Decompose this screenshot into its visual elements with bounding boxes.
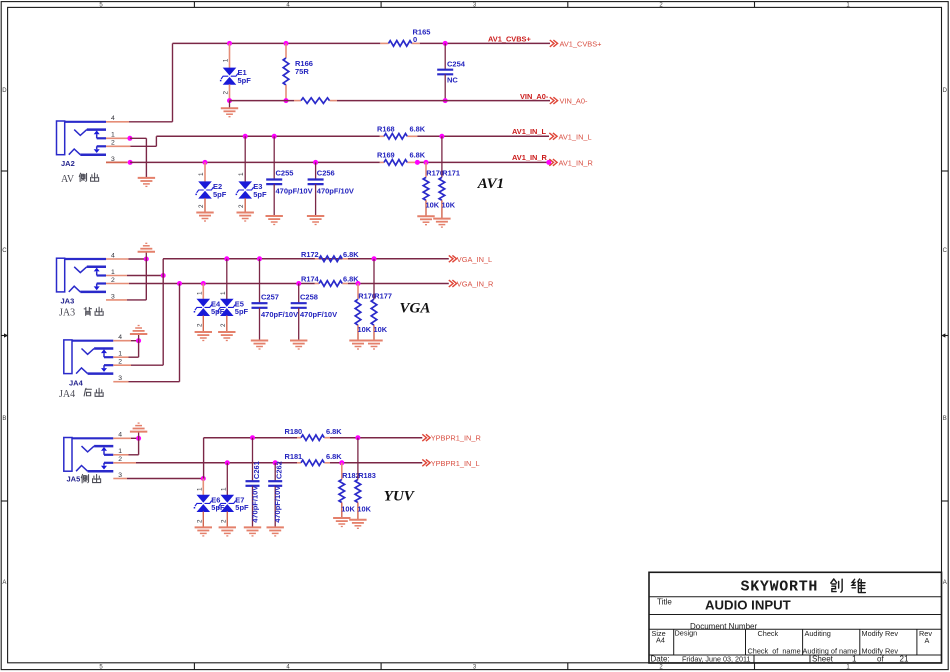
TVS diode E5 5pF: [224, 256, 229, 261]
svg-text:5pF: 5pF: [213, 190, 227, 199]
svg-text:YPBPR1_IN_R: YPBPR1_IN_R: [431, 434, 481, 443]
svg-text:6.8K: 6.8K: [410, 151, 426, 160]
svg-text:10K: 10K: [341, 504, 355, 513]
ground: [229, 101, 231, 108]
svg-text:R180: R180: [285, 427, 303, 436]
resistor R168 6.8K: [384, 134, 407, 140]
svg-text:1: 1: [220, 487, 227, 491]
svg-text:AUDIO INPUT: AUDIO INPUT: [705, 598, 791, 613]
svg-text:6.8K: 6.8K: [326, 427, 342, 436]
resistor (unlabeled): [301, 98, 330, 104]
resistor R176 10K: [356, 281, 361, 286]
svg-text:JA4: JA4: [69, 378, 84, 387]
resistor R169 6.8K: [384, 160, 407, 166]
svg-text:21: 21: [900, 655, 909, 664]
svg-text:2: 2: [196, 519, 203, 523]
svg-text:R172: R172: [301, 250, 319, 259]
svg-text:0: 0: [413, 35, 417, 44]
svg-text:D: D: [943, 88, 948, 94]
TVS diode E2 5pF: [203, 160, 208, 165]
svg-text:AV1_CVBS+: AV1_CVBS+: [488, 34, 531, 43]
svg-text:R171: R171: [442, 168, 460, 177]
svg-text:C257: C257: [261, 292, 279, 301]
port AV1_CVBS+: [550, 40, 558, 47]
svg-text:JA3: JA3: [61, 296, 75, 305]
svg-text:2: 2: [220, 519, 227, 523]
junction: [227, 98, 232, 103]
svg-text:10K: 10K: [426, 201, 440, 210]
ground: [196, 212, 213, 214]
resistor R177 10K: [372, 256, 377, 261]
svg-text:C: C: [943, 248, 948, 254]
svg-text:6.8K: 6.8K: [326, 452, 342, 461]
TVS diode E3 5pF: [243, 134, 248, 139]
port YPBPR1_IN_R: [422, 434, 430, 441]
ground: [349, 519, 366, 521]
ground (inverted): [130, 333, 147, 335]
junction: [284, 98, 289, 103]
svg-text:2: 2: [196, 323, 203, 327]
capacitor C254 NC: [444, 43, 446, 69]
svg-text:VIN_A0-: VIN_A0-: [560, 97, 588, 106]
svg-text:YPBPR1_IN_L: YPBPR1_IN_L: [431, 459, 480, 468]
svg-text:10K: 10K: [442, 201, 456, 210]
junction: [177, 281, 182, 286]
port YPBPR1_IN_L: [422, 459, 430, 466]
resistor R171 10K: [439, 134, 444, 139]
connector JA2: [57, 121, 107, 155]
svg-text:VGA_IN_R: VGA_IN_R: [457, 280, 494, 289]
svg-text:JA5: JA5: [67, 475, 81, 484]
ground: [244, 526, 261, 528]
capacitor C258 470pF/10V: [296, 281, 301, 286]
svg-text:10K: 10K: [374, 325, 388, 334]
junction: [443, 41, 448, 46]
ground: [219, 526, 236, 528]
svg-text:2: 2: [198, 204, 205, 208]
wire top rail AV1_CVBS+: [173, 42, 381, 44]
svg-text:D: D: [2, 88, 7, 94]
svg-text:Date:: Date:: [651, 655, 670, 664]
TVS diode E7 5pF: [225, 460, 230, 465]
svg-text:6.8K: 6.8K: [410, 125, 426, 134]
ground (inverted): [138, 251, 155, 253]
svg-text:C256: C256: [317, 169, 335, 178]
svg-text:1: 1: [852, 655, 857, 664]
svg-text:2: 2: [238, 204, 245, 208]
ground: [333, 517, 350, 519]
ground: [290, 340, 307, 342]
svg-text:R169: R169: [377, 151, 395, 160]
svg-text:R174: R174: [301, 275, 320, 284]
ground: [365, 340, 382, 342]
ground (inverted): [130, 431, 147, 433]
svg-text:2: 2: [223, 91, 230, 95]
svg-text:1: 1: [196, 291, 203, 295]
port VGA_IN_R: [449, 280, 457, 287]
svg-text:5pF: 5pF: [235, 307, 249, 316]
svg-text:C254: C254: [447, 60, 466, 69]
ground: [195, 331, 212, 333]
port VIN_A0-: [550, 97, 558, 104]
svg-text:470pF/10V: 470pF/10V: [317, 187, 354, 196]
junction: [284, 41, 289, 46]
svg-text:B: B: [2, 416, 6, 422]
svg-text:VGA_IN_L: VGA_IN_L: [457, 255, 492, 264]
svg-text:470pF/10V: 470pF/10V: [276, 187, 313, 196]
capacitor C256 470pF/10V: [313, 160, 318, 165]
svg-text:A: A: [2, 580, 6, 586]
svg-text:Design: Design: [675, 629, 698, 638]
svg-text:C: C: [2, 248, 7, 254]
port AV1_IN_L: [549, 133, 557, 140]
svg-text:YUV: YUV: [384, 489, 416, 505]
svg-text:JA4: JA4: [59, 389, 75, 400]
svg-text:A: A: [943, 580, 947, 586]
svg-text:Document Number: Document Number: [690, 622, 757, 631]
ground: [218, 331, 235, 333]
wire JA2 pin4 to top rail: [106, 121, 129, 123]
resistor R183 10K: [355, 435, 360, 440]
svg-text:1: 1: [223, 58, 230, 62]
resistor R180 6.8K: [301, 435, 324, 441]
svg-text:R181: R181: [285, 452, 303, 461]
ground: [433, 218, 450, 220]
ground: [251, 340, 268, 342]
svg-text:1: 1: [196, 487, 203, 491]
svg-text:75R: 75R: [295, 67, 309, 76]
ground: [195, 526, 212, 528]
svg-text:AV1_IN_L: AV1_IN_L: [512, 127, 546, 136]
svg-text:B: B: [943, 416, 947, 422]
resistor R174 6.8K: [319, 281, 342, 287]
capacitor C255 470pF/10V: [272, 134, 277, 139]
title block: [649, 572, 942, 663]
svg-text:AV1_IN_R: AV1_IN_R: [512, 153, 547, 162]
svg-text:470pF/10V: 470pF/10V: [261, 310, 298, 319]
svg-text:Sheet: Sheet: [812, 655, 834, 664]
svg-text:R177: R177: [374, 291, 392, 300]
ground: [349, 340, 366, 342]
svg-text:A: A: [925, 636, 930, 645]
resistor R170 10K: [415, 160, 420, 165]
svg-text:5pF: 5pF: [235, 503, 249, 512]
svg-text:AV1_IN_L: AV1_IN_L: [559, 132, 592, 141]
resistor R166 75R: [285, 43, 287, 58]
svg-text:10K: 10K: [358, 325, 372, 334]
ground: [237, 212, 254, 214]
capacitor C262 470pF/10V: [273, 460, 278, 465]
svg-text:C258: C258: [300, 292, 318, 301]
svg-text:VGA: VGA: [400, 301, 431, 317]
capacitor C257 470pF/10V: [257, 256, 262, 261]
svg-text:1: 1: [198, 172, 205, 176]
svg-text:R168: R168: [377, 125, 395, 134]
svg-text:5pF: 5pF: [253, 190, 267, 199]
connector JA5: [64, 438, 114, 472]
svg-text:1: 1: [220, 291, 227, 295]
svg-text:Check: Check: [758, 629, 779, 638]
svg-text:Friday, June 03, 2011: Friday, June 03, 2011: [682, 655, 750, 664]
svg-text:C262: C262: [275, 461, 284, 479]
svg-text:C261: C261: [252, 461, 261, 479]
wire VIN_A0- rail: [230, 100, 295, 102]
svg-text:6.8K: 6.8K: [343, 250, 359, 259]
capacitor C261 470pF/10V: [250, 435, 255, 440]
svg-text:AV1: AV1: [477, 176, 504, 192]
connector JA3: [57, 258, 107, 292]
svg-text:5pF: 5pF: [238, 76, 252, 85]
ground: [417, 215, 434, 217]
svg-text:Modify Rev: Modify Rev: [862, 629, 899, 638]
svg-text:VIN_A0-: VIN_A0-: [520, 92, 549, 101]
ground: [307, 215, 324, 217]
svg-text:JA3: JA3: [59, 308, 75, 319]
svg-text:470pF/10V: 470pF/10V: [273, 486, 282, 523]
logo text 创维: [831, 579, 842, 592]
ground: [267, 526, 284, 528]
port VGA_IN_L: [449, 255, 457, 262]
svg-text:Check of name: Check of name: [748, 647, 801, 656]
svg-text:C255: C255: [276, 169, 294, 178]
TVS diode E4 5pF: [201, 281, 206, 286]
connector JA4: [64, 340, 114, 374]
svg-text:AV: AV: [61, 174, 75, 185]
svg-text:NC: NC: [447, 76, 458, 85]
svg-text:of: of: [877, 655, 884, 664]
svg-text:2: 2: [220, 323, 227, 327]
ground: [138, 177, 155, 179]
svg-text:470pF/10V: 470pF/10V: [250, 486, 259, 523]
resistor R165: [389, 41, 412, 47]
svg-text:470pF/10V: 470pF/10V: [300, 310, 337, 319]
svg-text:AV1_CVBS+: AV1_CVBS+: [560, 39, 602, 48]
TVS diode E6 5pF: [202, 479, 204, 496]
svg-text:R182: R182: [342, 471, 360, 480]
resistor R181 6.8K: [301, 460, 324, 466]
svg-text:4: 4: [111, 115, 115, 122]
svg-text:A4: A4: [656, 636, 665, 645]
svg-text:AV1_IN_R: AV1_IN_R: [559, 158, 593, 167]
port AV1_IN_R: [546, 160, 551, 165]
svg-text:JA2: JA2: [61, 159, 75, 168]
ground: [266, 215, 283, 217]
svg-text:R183: R183: [358, 471, 376, 480]
svg-text:Title: Title: [657, 598, 672, 607]
junction: [443, 98, 448, 103]
resistor R172 6.8K: [319, 256, 342, 262]
caption 侧出: [81, 474, 88, 482]
svg-text:Auditing: Auditing: [805, 629, 831, 638]
svg-text:1: 1: [238, 172, 245, 176]
svg-text:10K: 10K: [357, 504, 371, 513]
svg-text:SKYWORTH: SKYWORTH: [741, 579, 819, 596]
resistor R182 10K: [339, 460, 344, 465]
TVS diode E1 5pF: [229, 43, 231, 68]
junction: [227, 41, 232, 46]
